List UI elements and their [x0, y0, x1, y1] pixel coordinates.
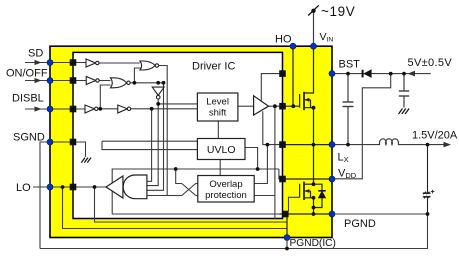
5V input arrowhead	[408, 71, 416, 77]
svg-text:protection: protection	[205, 190, 247, 201]
driver buffer G10 (high-side)	[254, 96, 269, 115]
pin LO	[70, 184, 77, 191]
wire SGND external to bottom rail	[40, 142, 50, 249]
pin ON/OFF	[70, 77, 77, 84]
junction LX sense	[266, 143, 270, 147]
wire PGND external	[332, 213, 428, 215]
NOR gate G5 (top)	[140, 61, 159, 70]
svg-text:Overlap: Overlap	[209, 179, 242, 190]
junction bootstrap cap to LX	[346, 143, 350, 147]
pin LX	[279, 141, 286, 148]
pin SD	[70, 59, 77, 66]
wire LS gate lead	[289, 197, 300, 211]
terminal ~19V input	[308, 5, 319, 15]
junction HO gate	[291, 104, 295, 108]
wire UVLO input lines	[102, 140, 198, 142]
wire DISBL branch down to AND in1	[147, 109, 152, 182]
wire LO feedback A down through band	[63, 187, 288, 229]
wire SGND row	[50, 141, 70, 143]
wire NOR1 output to vertical 165.4	[147, 66, 167, 196]
junction BST cap	[346, 72, 350, 76]
block UVLO	[197, 139, 245, 160]
junction rail to cross-wire	[174, 167, 178, 171]
wire bottom ground rail	[40, 214, 428, 249]
inductor L1	[379, 139, 398, 145]
pin PGND(internal)	[282, 211, 289, 218]
diode D2 symbol body	[318, 191, 325, 198]
wire ON/OFF row	[50, 80, 86, 82]
pin SGND	[70, 139, 77, 146]
wire PGND(IC) to bottom rail	[286, 238, 288, 249]
wire DISBL row	[50, 108, 85, 110]
junction diode return	[312, 206, 316, 210]
junction row2 to down-inverter	[156, 81, 160, 85]
diode D1 bootstrap	[363, 70, 372, 78]
capacitor C2 input bypass	[399, 74, 409, 108]
svg-text:BST: BST	[339, 59, 361, 71]
node BST	[329, 71, 335, 77]
wire VIN external supply line	[313, 11, 315, 46]
junction PGND row	[312, 212, 316, 216]
svg-text:SD: SD	[28, 48, 43, 60]
pin DISBL	[70, 106, 77, 113]
junction LX node row	[312, 143, 316, 147]
wire HO node down to gate	[292, 46, 294, 106]
junction 5V to bypass cap	[402, 72, 406, 76]
junction Q2 source-body	[312, 196, 316, 200]
inverter G2 (ON/OFF)	[86, 77, 99, 85]
node PGND(IC)	[284, 235, 290, 241]
wire PGND(IC) riser	[286, 215, 288, 238]
svg-text:5V±0.5V: 5V±0.5V	[408, 57, 453, 69]
pin VDD	[279, 176, 286, 183]
inverter G1 (SD)	[86, 59, 99, 67]
wire level shift to HS driver	[238, 105, 254, 107]
wire ON/OFF input stub	[25, 78, 50, 83]
wire DISBL input stub	[25, 106, 50, 111]
svg-text:PGND(IC): PGND(IC)	[290, 238, 336, 249]
wire LX pin into driver return	[263, 111, 283, 144]
package pins (black squares)	[70, 59, 289, 217]
wire BST external	[332, 73, 431, 75]
block Level shift	[197, 93, 238, 121]
junction level-shift input tap	[156, 102, 160, 106]
svg-text:~19V: ~19V	[321, 4, 355, 19]
wire AND in4 to X	[167, 195, 182, 197]
node VDD	[329, 176, 335, 182]
wire VDD pin to node	[283, 178, 333, 180]
svg-text:1.5V/20A: 1.5V/20A	[412, 130, 458, 142]
capacitor C3 output (polarized)	[423, 145, 435, 214]
junction Q1 source-body	[312, 106, 316, 110]
wire BST pin into driver	[261, 74, 282, 101]
wire LO stub	[33, 186, 50, 188]
AND gate G8 (mirrored, low-side)	[123, 175, 147, 199]
junction output cap bottom	[426, 212, 430, 216]
pin BST(internal)	[279, 70, 286, 77]
svg-text:HO: HO	[275, 34, 292, 46]
wire UVLO output to rail	[245, 148, 258, 170]
svg-text:Level: Level	[206, 97, 229, 108]
junction HO gate sense	[273, 104, 277, 108]
node SD	[47, 60, 53, 66]
wire UVLO to overlap vertical	[219, 160, 221, 176]
wire HS driver output to HO pin	[269, 105, 283, 107]
junction rail to UVLO	[256, 167, 260, 171]
junction LO feedback A	[61, 185, 65, 189]
inverter G4 (DISBL 2nd)	[118, 105, 131, 113]
wire SD input stub	[25, 60, 50, 65]
package nodes (blue circles)	[47, 43, 335, 240]
wire NOR2 out row2	[128, 83, 163, 191]
svg-text:UVLO: UVLO	[207, 144, 236, 156]
junction row2 to NOR1 input	[133, 81, 137, 85]
svg-text:LO: LO	[16, 182, 31, 194]
node VIN	[311, 43, 317, 49]
wire LO row	[50, 186, 106, 188]
wire level-shift in1	[158, 103, 197, 105]
wire LX row inside	[283, 144, 333, 146]
wire inv-down output chain	[147, 99, 158, 185]
junction LO feedback B	[93, 185, 97, 189]
junction DISBL row	[150, 107, 154, 111]
svg-text:Driver IC: Driver IC	[192, 61, 235, 73]
power-stage package (yellow frame)	[50, 46, 332, 237]
wire overlap out B to HO gate sense	[254, 106, 275, 195]
junction row2 end	[162, 81, 166, 85]
junction 5V to VDD feed	[389, 72, 393, 76]
pin HO gate	[279, 103, 286, 110]
wire NOR1 in2 riser	[134, 68, 141, 83]
node LO	[47, 184, 53, 190]
X crossing wires	[182, 184, 196, 196]
node SGND	[47, 139, 53, 145]
NOR gate G6 (mid)	[111, 78, 131, 88]
svg-text:ON/OFF: ON/OFF	[6, 68, 48, 80]
capacitor C1 bootstrap	[343, 74, 354, 145]
ground chassis internal (SGND)	[81, 158, 91, 163]
wire internal rail / loop to PGND pin	[112, 169, 279, 214]
node LX	[329, 142, 335, 148]
block Overlap protection	[198, 176, 254, 203]
inverter G3 (DISBL)	[85, 105, 98, 113]
node HO	[290, 43, 296, 49]
svg-text:PGND: PGND	[344, 218, 376, 230]
node PGND	[329, 211, 335, 217]
wire LX output line	[332, 144, 380, 146]
wire PGND row inside	[280, 213, 333, 215]
driver buffer G9 (low-side, points left)	[106, 176, 123, 198]
wire SD row	[50, 62, 86, 64]
wire overlap out A to LX sense	[254, 145, 267, 184]
svg-text:DISBL: DISBL	[12, 93, 44, 105]
output arrowhead	[444, 142, 452, 148]
diode D2 body diode	[314, 184, 323, 191]
wire 5V to VDD	[332, 74, 391, 179]
wire X-cross elbow to rail	[176, 169, 182, 184]
driver IC inner region border	[73, 52, 283, 218]
transistor Q2 low-side NMOS	[299, 184, 301, 198]
junction output cap top	[426, 143, 430, 147]
wire level shift to UVLO vertical	[217, 121, 219, 139]
junction Q2 drain-diode	[312, 182, 316, 186]
node DISBL	[47, 106, 53, 112]
transistor Q1 high-side NMOS	[299, 94, 301, 108]
svg-text:shift: shift	[209, 108, 227, 119]
inverter G7 (down-pointing)	[152, 87, 164, 99]
node ON/OFF	[47, 78, 53, 84]
junction PGND(IC) to rail	[285, 247, 289, 251]
junction DISBL to NOR2	[98, 107, 102, 111]
wire NOR2 in2 riser from DISBL	[100, 85, 110, 109]
ground chassis for C2	[399, 109, 410, 115]
wire LO feedback B to LS gate	[95, 187, 288, 222]
